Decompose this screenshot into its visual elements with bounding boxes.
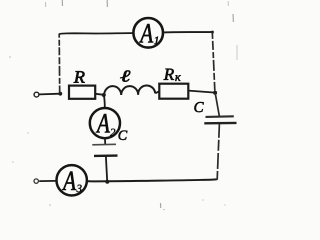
inductor L — [104, 85, 155, 95]
wire T1 to node A — [40, 93, 61, 96]
label R — [74, 71, 85, 83]
wire A3 to terminal T2 — [39, 180, 56, 182]
ammeter A2 — [90, 108, 120, 138]
scan artifacts (faint) — [46, 0, 238, 210]
node D junction dot — [105, 180, 109, 184]
wire A1 to top-right corner — [163, 31, 212, 34]
wire A2 down to capacitor C1 — [104, 138, 106, 144]
resistor R — [69, 86, 95, 99]
label L — [120, 71, 130, 82]
wire capacitor C2 down to bottom-right corner — [217, 124, 219, 179]
ammeter A3 — [56, 165, 86, 195]
corner blob — [211, 31, 214, 34]
wire L to Rk — [155, 92, 159, 94]
label Rk — [164, 69, 174, 80]
terminal T1 (top-left input) — [34, 92, 39, 97]
label C (A2 branch capacitor) — [119, 131, 128, 140]
node A junction dot — [58, 92, 62, 96]
resistor Rk — [159, 84, 188, 99]
ammeter A1 — [133, 18, 163, 48]
node B junction dot — [213, 91, 217, 95]
wire node B down to capacitor C2 — [215, 93, 219, 116]
label C (right capacitor) — [194, 102, 203, 112]
terminal T2 (bottom-left input) — [34, 179, 38, 183]
capacitor C1 (A2 branch) — [92, 144, 117, 156]
wire node A up left riser — [58, 34, 61, 94]
wire Rk to node B — [189, 91, 216, 93]
wire bottom segment — [87, 179, 217, 181]
node C junction dot — [102, 93, 106, 97]
wire right riser upper — [212, 32, 215, 93]
capacitor C2 (right branch) — [204, 116, 236, 123]
wire capacitor C1 down to node D — [106, 156, 107, 181]
wire R to node C — [95, 94, 104, 95]
wire node C down to A2 — [103, 95, 106, 108]
wire top left segment — [59, 32, 133, 35]
